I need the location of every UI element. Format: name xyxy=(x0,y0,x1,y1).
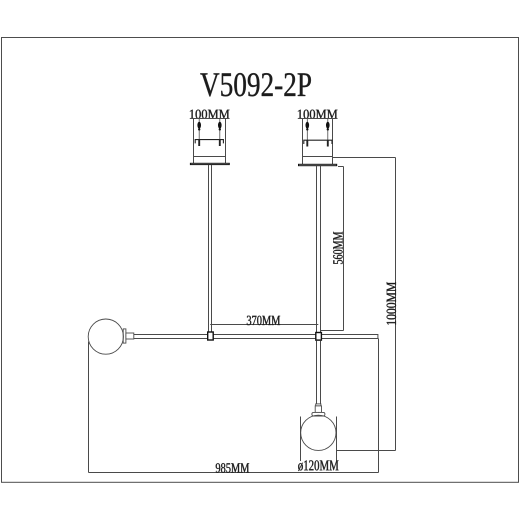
lamp 1 socket ring xyxy=(123,329,126,343)
rod 1 xyxy=(209,165,212,332)
dim ø120MM extension left xyxy=(300,417,302,462)
dim 560MM extension top xyxy=(338,166,344,168)
junction block 2 xyxy=(316,333,322,341)
canopy 1 screw bolts xyxy=(197,119,221,140)
lamp 1 glass sphere xyxy=(88,319,123,354)
canopy 2 screw bolts xyxy=(306,119,330,141)
canopy 1 flange xyxy=(190,163,229,164)
dim 1000MM extension bottom xyxy=(336,450,395,452)
dim ø120MM extension right xyxy=(336,417,338,462)
dim 985MM extension left xyxy=(88,342,90,473)
canopy 2 mounting bracket xyxy=(304,140,332,146)
lamp 2 socket ring xyxy=(316,404,321,406)
canopy 2 body xyxy=(303,119,333,165)
dim 370MM line xyxy=(210,324,318,326)
dim 985MM label xyxy=(216,463,249,472)
dim ø120MM label xyxy=(298,460,338,471)
rod 2 upper xyxy=(317,166,321,332)
dim 985MM extension right (from arm end) xyxy=(378,339,380,473)
junction block 1 xyxy=(208,332,214,340)
lamp 2 glass sphere xyxy=(301,415,336,450)
dim 370MM label xyxy=(247,316,280,325)
lamp 2 socket flange xyxy=(312,412,325,416)
canopy 1 mounting bracket xyxy=(195,140,223,146)
lamp 2 socket body xyxy=(315,406,321,413)
lamp 1 socket body xyxy=(126,333,134,339)
dim line 100MM (canopy 2) xyxy=(299,118,335,120)
dim 560MM extension bottom xyxy=(321,330,344,332)
dim 560MM label xyxy=(333,232,342,264)
dim 1000MM line xyxy=(395,158,397,451)
label 100MM (canopy 1) xyxy=(190,110,230,119)
dim line 100MM (canopy 1) xyxy=(191,118,227,120)
dim 560MM line xyxy=(343,167,345,331)
dim 985MM line xyxy=(89,472,379,474)
dim 1000MM label xyxy=(387,282,396,325)
title V5092-2P xyxy=(200,73,311,96)
horizontal arm xyxy=(134,334,378,339)
canopy 2 flange xyxy=(299,164,337,165)
label 100MM (canopy 2) xyxy=(298,110,338,119)
dim 1000MM extension top xyxy=(333,157,396,159)
rod 2 lower xyxy=(317,341,321,404)
canopy 1 body xyxy=(194,119,226,164)
